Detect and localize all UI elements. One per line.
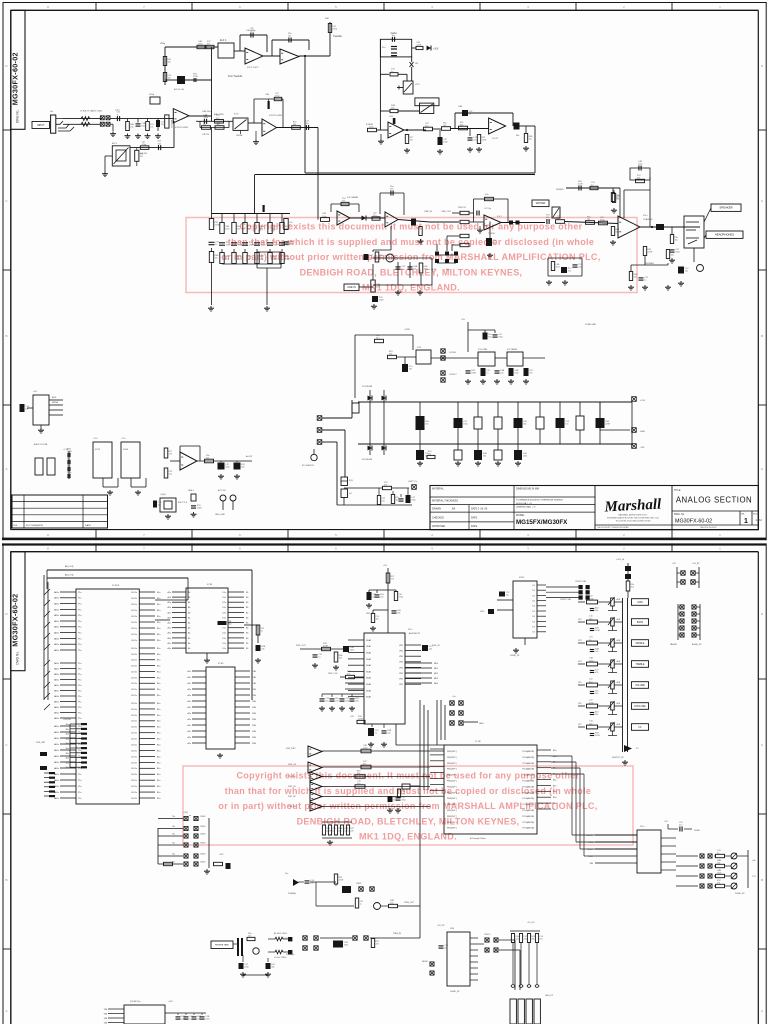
- svg-text:PC/4(A0C/B): PC/4(A0C/B): [522, 774, 534, 777]
- svg-text:B5 CHASSIS: B5 CHASSIS: [302, 464, 314, 467]
- resistor R11b: [202, 126, 211, 130]
- capacitor C52: [499, 592, 505, 597]
- svg-text:B1x: B1x: [157, 774, 160, 776]
- svg-text:+5V_FP: +5V_FP: [692, 563, 700, 565]
- svg-text:PC/4(A0C/B): PC/4(A0C/B): [522, 791, 534, 794]
- capacitor C: [509, 368, 514, 376]
- wire: [195, 46, 218, 48]
- svg-text:47k: 47k: [350, 830, 353, 832]
- capacitor C25: [578, 186, 580, 191]
- svg-text:22u: 22u: [203, 124, 206, 126]
- svg-text:IC4.2 A/B4B: IC4.2 A/B4B: [347, 196, 359, 199]
- svg-text:DSP_U4: DSP_U4: [288, 764, 297, 766]
- svg-text:MK1 1DQ, ENGLAND.: MK1 1DQ, ENGLAND.: [359, 832, 457, 842]
- svg-text:MATERIAL THICKNESS: MATERIAL THICKNESS: [432, 499, 458, 502]
- ground: [420, 239, 422, 241]
- capacitor C: [340, 698, 345, 700]
- svg-text:A1x: A1x: [188, 724, 191, 727]
- trim in row: [303, 936, 307, 940]
- svg-text:D5B: D5B: [252, 743, 257, 745]
- svg-text:CLK1x: CLK1x: [131, 689, 137, 691]
- svg-text:P1x: P1x: [78, 638, 81, 640]
- svg-text:AB1x: AB1x: [54, 717, 59, 720]
- resistor R61: [361, 749, 371, 753]
- eq ladder column 1: [211, 128, 213, 220]
- capacitor C29: [639, 277, 644, 279]
- resistor R57: [322, 647, 331, 650]
- svg-text:IC6/4: IC6/4: [123, 449, 129, 451]
- svg-text:D5B: D5B: [252, 695, 257, 697]
- wire: [398, 220, 430, 223]
- ground: [368, 603, 370, 605]
- resistor R26: [321, 218, 330, 222]
- resistor R70 zigzag: [275, 937, 283, 941]
- svg-text:PC/4(A0C/B): PC/4(A0C/B): [522, 750, 534, 753]
- wire: [268, 938, 275, 940]
- svg-text:1u: 1u: [289, 224, 291, 226]
- svg-text:MATERIAL: MATERIAL: [432, 488, 444, 491]
- ground: [406, 148, 408, 150]
- wire: [380, 73, 389, 75]
- svg-text:B1x: B1x: [157, 683, 160, 685]
- capacitor C49: [382, 730, 387, 732]
- svg-text:P1x: P1x: [78, 621, 81, 623]
- svg-text:47k: 47k: [207, 44, 210, 46]
- svg-text:D1x: D1x: [222, 638, 226, 640]
- svg-text:APPROVED: APPROVED: [432, 525, 446, 528]
- capacitor C42: [367, 592, 372, 600]
- capacitor C: [350, 698, 355, 700]
- svg-text:P1x: P1x: [78, 674, 81, 676]
- capacitor C32: [483, 333, 488, 340]
- svg-text:ACT GN: ACT GN: [218, 489, 226, 492]
- svg-text:D5B: D5B: [252, 707, 257, 709]
- wire: [164, 47, 166, 85]
- sheet2 drawing-number strip: [11, 552, 25, 671]
- capacitor C44: [203, 119, 205, 124]
- wire: [524, 638, 526, 645]
- svg-text:B1x: B1x: [157, 592, 160, 594]
- mcu U22: [444, 745, 537, 834]
- ground: [321, 706, 323, 708]
- svg-text:+5V2: +5V2: [219, 854, 223, 856]
- capacitor C: [474, 450, 482, 460]
- ic U12: [33, 395, 49, 425]
- svg-text:P1x: P1x: [78, 786, 81, 788]
- ground: [389, 808, 391, 810]
- wire: [398, 110, 420, 112]
- sheet1 zone ticks sides: [3, 129, 11, 131]
- sheet1 outer border: [3, 2, 767, 4]
- resistor R30d: [460, 243, 469, 246]
- svg-text:or in part) without prior writ: or in part) without prior written permis…: [221, 252, 600, 262]
- feedback cap box: [630, 168, 650, 180]
- ground: [329, 840, 331, 842]
- svg-text:AB1x: AB1x: [54, 603, 59, 606]
- svg-text:D5B: D5B: [252, 677, 257, 679]
- svg-text:CLK1x: CLK1x: [131, 634, 137, 636]
- wire: [479, 226, 481, 228]
- svg-text:100n: 100n: [638, 164, 642, 166]
- wire: [299, 55, 330, 57]
- svg-text:AB1x: AB1x: [54, 725, 59, 728]
- capacitor C18: [390, 191, 392, 196]
- svg-text:TL4/1B: TL4/1B: [488, 233, 495, 235]
- svg-text:DATE: DATE: [471, 517, 478, 520]
- svg-text:220R: 220R: [648, 251, 653, 253]
- ground: [612, 240, 614, 242]
- capacitor C: [320, 698, 325, 700]
- wire: [693, 248, 695, 262]
- title block bottom strip: [595, 524, 758, 526]
- op-amp U7A: [262, 119, 277, 136]
- resistor R45: [629, 272, 632, 281]
- resistor R4 zigzag: [81, 117, 90, 121]
- summing feeds: [447, 235, 460, 237]
- resistor R66: [626, 581, 630, 591]
- feedback loop wire: [239, 35, 241, 51]
- svg-text:CLK1x: CLK1x: [131, 715, 137, 717]
- svg-text:LATCH: LATCH: [587, 834, 594, 837]
- svg-text:DIMENSIONAL + %: DIMENSIONAL + %: [516, 506, 535, 509]
- svg-text:A1x: A1x: [188, 670, 191, 673]
- svg-text:47k: 47k: [595, 672, 598, 674]
- svg-text:IC5/3 TL04/1B: IC5/3 TL04/1B: [269, 115, 283, 117]
- capacitor C34: [402, 364, 408, 372]
- sheet2 zone ticks top: [95, 543, 97, 551]
- svg-text:IC B1: IC B1: [207, 584, 213, 586]
- svg-text:56k: 56k: [595, 610, 598, 612]
- wire: [397, 356, 416, 358]
- resistor R63: [397, 789, 400, 797]
- svg-text:GND_GND: GND_GND: [215, 514, 226, 516]
- resistor R49: [383, 486, 392, 489]
- capacitor C19: [364, 254, 369, 260]
- riser wire: [211, 47, 213, 121]
- resistor R27: [341, 202, 349, 205]
- resistor R: [519, 934, 522, 943]
- ground: [137, 134, 139, 136]
- svg-text:USC: USC: [480, 611, 485, 613]
- resistor R42: [670, 235, 673, 244]
- wire: [612, 188, 614, 193]
- svg-text:220R: 220R: [249, 244, 254, 246]
- filter block U2: [218, 43, 234, 58]
- capacitor C: [481, 368, 486, 376]
- svg-text:CLK1x: CLK1x: [131, 683, 137, 685]
- sheet1 zone ticks top: [95, 2, 97, 10]
- svg-text:AGND_FP: AGND_FP: [692, 643, 702, 646]
- svg-text:DWG. No.: DWG. No.: [674, 513, 685, 516]
- svg-text:D5B: D5B: [252, 737, 257, 739]
- svg-text:P1x: P1x: [78, 780, 81, 782]
- ground: [206, 869, 208, 871]
- svg-text:220R: 220R: [379, 299, 384, 301]
- resistor R72: [355, 898, 358, 908]
- svg-text:DYNE GND: DYNE GND: [585, 324, 596, 326]
- sheet1 copyright watermark box: [186, 218, 637, 293]
- svg-text:56k: 56k: [428, 454, 431, 456]
- ground: [489, 253, 491, 255]
- svg-text:56k: 56k: [595, 714, 598, 716]
- wire: [110, 123, 113, 125]
- svg-text:P1x: P1x: [78, 663, 81, 665]
- svg-text:+5(2)x: +5(2)x: [160, 494, 167, 496]
- jack J4: [220, 495, 226, 501]
- svg-text:B1x: B1x: [553, 797, 556, 799]
- transistor Q: [519, 985, 523, 988]
- svg-text:MPSA: MPSA: [52, 401, 59, 404]
- svg-text:PB1(2GP ): PB1(2GP ): [447, 810, 457, 812]
- svg-text:A1x: A1x: [168, 637, 171, 640]
- resistor R36: [599, 221, 608, 225]
- svg-text:47k: 47k: [529, 372, 532, 374]
- ground: [496, 379, 498, 381]
- svg-text:PB1(2GP ): PB1(2GP ): [447, 798, 457, 800]
- compressor cell U4: [380, 39, 411, 57]
- svg-text:TDA2050: TDA2050: [643, 218, 653, 221]
- svg-text:A1x: A1x: [188, 736, 191, 739]
- resistor R67: [164, 862, 173, 865]
- svg-text:P1x: P1x: [78, 633, 81, 635]
- gyrator box: [257, 251, 281, 253]
- svg-text:DRAWN: DRAWN: [432, 508, 441, 511]
- svg-text:B1x: B1x: [157, 677, 160, 679]
- ground: [548, 280, 550, 282]
- svg-text:220R: 220R: [326, 830, 331, 832]
- wire: [313, 449, 315, 454]
- wire: [397, 87, 403, 89]
- ground: [497, 461, 499, 463]
- feedback loop wire: [454, 113, 456, 128]
- capacitor C23a: [411, 219, 416, 226]
- resistor R9b: [140, 146, 149, 150]
- digipot diode: [624, 745, 632, 752]
- svg-text:P1x: P1x: [78, 644, 81, 646]
- svg-text:LF SULTY CABLY CN2/1: LF SULTY CABLY CN2/1: [80, 110, 103, 113]
- svg-text:100n: 100n: [556, 266, 560, 268]
- resistor R: [334, 825, 337, 835]
- svg-text:10n: 10n: [589, 618, 592, 620]
- ground: [680, 281, 682, 283]
- svg-text:B1x: B1x: [553, 809, 556, 811]
- wire: [437, 254, 456, 256]
- transformer T1: [237, 938, 239, 956]
- svg-text:DSP_S1: DSP_S1: [288, 786, 297, 788]
- resistor R55: [394, 592, 397, 601]
- sel connectors: [579, 585, 583, 589]
- resistor R37: [611, 227, 614, 236]
- interface ic U24: [513, 581, 537, 638]
- svg-text:1u: 1u: [591, 185, 593, 187]
- connector CN2 pin 4: [106, 122, 110, 126]
- svg-text:220R: 220R: [605, 423, 610, 425]
- svg-text:220R: 220R: [285, 258, 290, 260]
- svg-text:SDA1: SDA1: [366, 689, 372, 692]
- resistor R11: [368, 128, 377, 131]
- mcu left bus slashes: [43, 575, 45, 700]
- svg-text:47k: 47k: [347, 674, 350, 676]
- sheet1 drawing-number strip: [11, 10, 25, 129]
- wire: [359, 286, 373, 288]
- svg-text:56k: 56k: [237, 258, 240, 260]
- svg-text:A1x: A1x: [168, 611, 171, 614]
- transistor Q4: [253, 948, 259, 954]
- eq branch 5: [269, 214, 271, 223]
- svg-text:DGND_FP: DGND_FP: [450, 991, 460, 993]
- reverb tank block: [211, 941, 233, 949]
- eq branch 2: [233, 214, 235, 223]
- svg-text:A1x: A1x: [168, 591, 171, 594]
- mcu U17 left pins: [60, 591, 76, 593]
- svg-text:CN5/4: CN5/4: [200, 816, 205, 818]
- svg-text:AB1x: AB1x: [54, 678, 59, 681]
- resistor R74: [371, 939, 374, 948]
- svg-text:MODE: MODE: [422, 961, 428, 963]
- svg-text:10k: 10k: [529, 138, 532, 140]
- connector CN5: [441, 371, 445, 375]
- capacitor C: [184, 1016, 189, 1018]
- svg-text:A Triangle Wave: A Triangle Wave: [470, 837, 487, 840]
- wire: [411, 67, 413, 81]
- resistor R10b: [215, 120, 224, 124]
- svg-text:B1x: B1x: [157, 709, 160, 711]
- svg-text:IC RX3: IC RX3: [112, 585, 120, 587]
- svg-text:+5V_FP: +5V_FP: [527, 922, 535, 924]
- sheet1 inner border: [11, 9, 759, 11]
- resistor R41: [612, 194, 615, 203]
- ground: [167, 514, 169, 516]
- svg-text:DGND_FP: DGND_FP: [510, 655, 520, 657]
- wire: [63, 118, 102, 120]
- svg-text:100n: 100n: [198, 44, 202, 46]
- svg-text:A: A: [5, 467, 7, 471]
- svg-text:22u: 22u: [444, 947, 447, 949]
- svg-text:A1x: A1x: [188, 700, 191, 703]
- capacitor C28: [678, 267, 684, 274]
- svg-text:CLK1x: CLK1x: [131, 756, 137, 758]
- svg-text:R_IN-1: R_IN-1: [283, 938, 290, 940]
- svg-text:SDA1: SDA1: [366, 652, 372, 655]
- svg-text:B1x: B1x: [157, 703, 160, 705]
- svg-text:A1x: A1x: [168, 627, 171, 630]
- wire: [240, 130, 242, 134]
- svg-text:A1x: A1x: [168, 616, 171, 619]
- resistor R35: [586, 221, 595, 225]
- wire: [266, 268, 268, 305]
- capacitor C: [454, 450, 462, 460]
- svg-text:CLK1x: CLK1x: [131, 762, 137, 764]
- svg-text:D5B: D5B: [252, 725, 257, 727]
- svg-text:C47 4/p: C47 4/p: [484, 208, 492, 210]
- svg-text:TITLE: TITLE: [674, 489, 681, 492]
- svg-text:T4x: T4x: [172, 843, 175, 845]
- sheet2 inner border: [11, 551, 759, 553]
- capacitor C1: [250, 33, 252, 38]
- svg-text:56k: 56k: [271, 966, 274, 968]
- op-amp U3B: [388, 122, 404, 138]
- capacitor C21: [396, 266, 401, 268]
- svg-text:AB1x: AB1x: [54, 591, 59, 594]
- svg-text:D5B: D5B: [252, 713, 257, 715]
- svg-text:IC B2: IC B2: [218, 663, 224, 665]
- svg-text:MG30FX-60-02: MG30FX-60-02: [11, 52, 20, 105]
- svg-text:IC/7x: IC/7x: [234, 114, 239, 116]
- wire: [354, 335, 356, 398]
- capacitor C: [514, 418, 523, 428]
- svg-text:P1x: P1x: [78, 650, 81, 652]
- svg-text:100n: 100n: [424, 268, 428, 270]
- svg-text:AB1x: AB1x: [54, 700, 59, 703]
- svg-text:P1x: P1x: [78, 718, 81, 720]
- svg-text:Twaddle: Twaddle: [333, 35, 343, 38]
- svg-text:220R: 220R: [471, 372, 476, 374]
- svg-text:56k: 56k: [241, 466, 244, 468]
- svg-text:47k: 47k: [342, 201, 345, 203]
- svg-text:DSP_RST: DSP_RST: [286, 748, 296, 750]
- resistor R: [346, 825, 349, 835]
- svg-text:PGM(B)x: PGM(B)x: [288, 893, 296, 895]
- wire: [234, 50, 245, 52]
- svg-text:AB1x: AB1x: [54, 689, 59, 692]
- svg-text:P1x: P1x: [78, 668, 81, 670]
- svg-text:PC/4(A0C/B): PC/4(A0C/B): [522, 785, 534, 788]
- ground: [257, 658, 259, 660]
- svg-text:B1x: B1x: [553, 750, 556, 752]
- svg-text:P1x: P1x: [78, 712, 81, 714]
- eq branch 4: [256, 214, 258, 223]
- svg-text:+5V: +5V: [350, 716, 354, 718]
- svg-text:10k: 10k: [261, 648, 264, 650]
- wire: [242, 955, 244, 962]
- capacitor C: [330, 698, 335, 700]
- capacitor C43: [158, 145, 160, 150]
- svg-text:PB1(2GP ): PB1(2GP ): [447, 792, 457, 794]
- wire: [251, 570, 253, 700]
- svg-text:D5 1N5408: D5 1N5408: [362, 386, 373, 388]
- resistor R: [511, 934, 514, 943]
- svg-text:DSP_OUT: DSP_OUT: [296, 645, 307, 647]
- svg-text:B1x: B1x: [66, 738, 69, 740]
- ground: [267, 972, 269, 974]
- wire: [322, 750, 444, 752]
- svg-text:1u: 1u: [375, 732, 377, 734]
- svg-text:VR4g: VR4g: [149, 94, 154, 96]
- svg-text:B1x: B1x: [553, 791, 556, 793]
- svg-text:SDA1: SDA1: [366, 639, 372, 642]
- svg-text:10n: 10n: [473, 139, 476, 141]
- svg-text:PC/4(A0C/B): PC/4(A0C/B): [522, 762, 534, 765]
- resistor R2: [206, 45, 214, 48]
- svg-text:PB1(2GP ): PB1(2GP ): [447, 804, 457, 806]
- svg-text:LINE IN: LINE IN: [347, 286, 356, 289]
- svg-text:100n: 100n: [589, 660, 593, 662]
- svg-text:10k: 10k: [339, 657, 342, 659]
- wire: [199, 121, 201, 127]
- svg-text:GAIN: GAIN: [637, 601, 643, 604]
- svg-text:10k: 10k: [390, 903, 393, 905]
- svg-text:1u: 1u: [486, 372, 488, 374]
- svg-text:DGND_FP: DGND_FP: [735, 893, 745, 895]
- svg-text:BA: BA: [452, 508, 456, 511]
- svg-text:T4x: T4x: [172, 854, 175, 856]
- svg-text:22u: 22u: [225, 258, 228, 260]
- expander pins: [470, 937, 478, 939]
- wire: [233, 943, 237, 945]
- capacitor C58: [333, 941, 343, 948]
- svg-text:INPUT: INPUT: [37, 124, 45, 127]
- +5V rail wire: [467, 322, 469, 352]
